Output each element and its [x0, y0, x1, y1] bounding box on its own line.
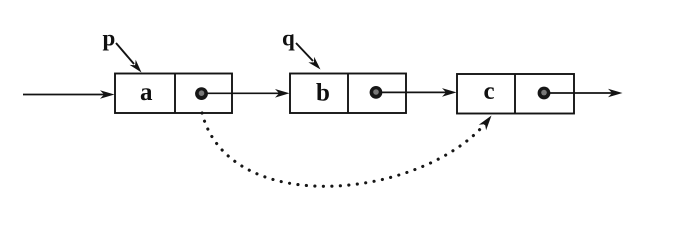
node b pointer dot — [370, 86, 383, 99]
wire dotted arc from node a pointer to node c — [202, 113, 489, 186]
node b box — [290, 74, 406, 114]
svg-text:q: q — [282, 26, 295, 51]
svg-text:b: b — [316, 80, 330, 107]
wire pointer p arrow — [116, 43, 142, 73]
svg-text:a: a — [140, 79, 153, 106]
svg-text:c: c — [484, 78, 495, 105]
wire outgoing arrow from node c — [549, 89, 623, 98]
node a box — [115, 74, 232, 114]
node c pointer dot — [538, 87, 551, 100]
wire a to b — [207, 89, 290, 98]
node a pointer dot — [195, 87, 208, 100]
node c box — [457, 74, 574, 114]
wire pointer q arrow — [296, 43, 321, 70]
dotted arc arrowhead — [479, 116, 492, 131]
svg-text:p: p — [103, 26, 116, 51]
wire b to c — [381, 88, 457, 97]
wire incoming arrow into node a — [23, 90, 115, 99]
